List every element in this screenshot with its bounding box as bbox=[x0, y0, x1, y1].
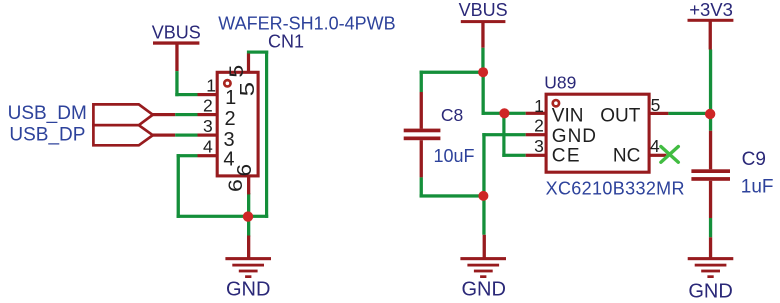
svg-text:C9: C9 bbox=[742, 149, 766, 170]
svg-text:XC6210B332MR: XC6210B332MR bbox=[546, 178, 685, 198]
svg-text:VBUS: VBUS bbox=[459, 0, 508, 20]
wire pin 4 loop to ground rail bbox=[177, 154, 269, 218]
svg-text:4: 4 bbox=[203, 136, 213, 156]
junction dot C8 ground rail bbox=[478, 191, 488, 201]
pin 3 stub bbox=[198, 134, 219, 137]
capacitor C9 bbox=[691, 112, 730, 259]
svg-text:GND: GND bbox=[552, 126, 597, 147]
wire GND pin down to rail bbox=[482, 133, 525, 196]
pin 2 GND stub bbox=[526, 133, 546, 136]
connector CN1 body bbox=[217, 72, 258, 176]
pin 4 stub bbox=[198, 154, 219, 157]
pin 2 stub bbox=[198, 113, 219, 116]
wire VBUS to C8 bbox=[420, 71, 484, 74]
wire +3V3 down to OUT junction bbox=[709, 50, 712, 113]
svg-text:3: 3 bbox=[534, 136, 544, 156]
svg-text:WAFER-SH1.0-4PWB: WAFER-SH1.0-4PWB bbox=[218, 13, 395, 33]
wire VBUS to VIN bbox=[482, 72, 526, 115]
svg-text:4: 4 bbox=[650, 136, 660, 156]
junction dot VBUS bbox=[478, 67, 488, 77]
svg-text:10uF: 10uF bbox=[434, 146, 475, 166]
svg-text:5: 5 bbox=[236, 82, 258, 96]
junction dot left GND net bbox=[243, 211, 253, 221]
svg-text:USB_DM: USB_DM bbox=[8, 103, 87, 124]
svg-text:CN1: CN1 bbox=[268, 32, 304, 52]
wire VBUS down bbox=[481, 48, 484, 72]
svg-text:GND: GND bbox=[461, 278, 505, 300]
pin 6 stub (bottom) bbox=[247, 176, 250, 195]
svg-text:OUT: OUT bbox=[600, 106, 641, 127]
power port VBUS (left) bbox=[152, 23, 201, 72]
svg-text:CE: CE bbox=[552, 145, 581, 166]
svg-text:USB_DP: USB_DP bbox=[9, 125, 85, 146]
svg-text:U89: U89 bbox=[544, 73, 576, 93]
wire USB_DM to pin 2 bbox=[152, 113, 198, 116]
svg-text:1: 1 bbox=[206, 75, 216, 95]
wire VBUS to pin 1 bbox=[175, 71, 197, 96]
svg-text:6: 6 bbox=[234, 164, 256, 176]
wire C8 bottom rail bbox=[420, 194, 484, 197]
wire USB_DP to pin 3 bbox=[152, 134, 198, 137]
svg-text:NC: NC bbox=[613, 145, 640, 166]
svg-text:C8: C8 bbox=[441, 105, 463, 125]
svg-text:1uF: 1uF bbox=[741, 177, 774, 198]
pin 5 OUT stub bbox=[649, 112, 668, 115]
junction dot OUT bbox=[705, 109, 715, 119]
svg-text:5: 5 bbox=[651, 95, 661, 115]
wire pin 5 loop (right side) bbox=[247, 51, 268, 218]
pin 1 marker ring bbox=[224, 80, 230, 86]
svg-text:1: 1 bbox=[534, 96, 544, 116]
svg-text:2: 2 bbox=[203, 95, 213, 115]
svg-text:5: 5 bbox=[227, 65, 248, 78]
wire VIN junction to CE bbox=[502, 113, 525, 157]
wire rail to middle ground bbox=[482, 196, 486, 259]
power port +3V3 bbox=[688, 0, 734, 50]
junction dot VIN/CE bbox=[499, 108, 509, 118]
no-connect X on pin 4 bbox=[661, 147, 678, 163]
pin 5 stub (top) bbox=[247, 54, 250, 74]
wire pin 6 to ground bbox=[247, 193, 250, 259]
wire OUT to +3V3 bbox=[668, 112, 710, 115]
capacitor C8 bbox=[404, 71, 441, 198]
svg-text:+3V3: +3V3 bbox=[689, 0, 733, 20]
svg-text:2: 2 bbox=[534, 116, 544, 136]
svg-text:6: 6 bbox=[226, 179, 247, 192]
port USB_DM bbox=[8, 103, 153, 125]
power port VBUS (right) bbox=[459, 0, 508, 48]
ground symbol (middle) bbox=[460, 257, 506, 278]
pin 1 stub bbox=[198, 93, 219, 96]
svg-text:GND: GND bbox=[688, 280, 732, 302]
U89 pin1 marker ring bbox=[553, 100, 559, 106]
svg-text:2: 2 bbox=[225, 108, 236, 130]
pin 1 VIN stub bbox=[526, 112, 546, 115]
svg-text:1: 1 bbox=[225, 87, 236, 109]
svg-text:VBUS: VBUS bbox=[152, 23, 201, 43]
ground symbol (right) bbox=[688, 257, 734, 278]
svg-text:4: 4 bbox=[223, 149, 234, 171]
pin 4 NC stub bbox=[649, 154, 666, 157]
regulator U89 body bbox=[546, 94, 649, 172]
pin 3 CE stub bbox=[526, 154, 546, 157]
ground symbol (left) bbox=[225, 257, 271, 278]
svg-text:VIN: VIN bbox=[552, 106, 584, 127]
svg-text:3: 3 bbox=[203, 116, 213, 136]
svg-text:GND: GND bbox=[226, 279, 270, 301]
port USB_DP bbox=[9, 125, 152, 146]
